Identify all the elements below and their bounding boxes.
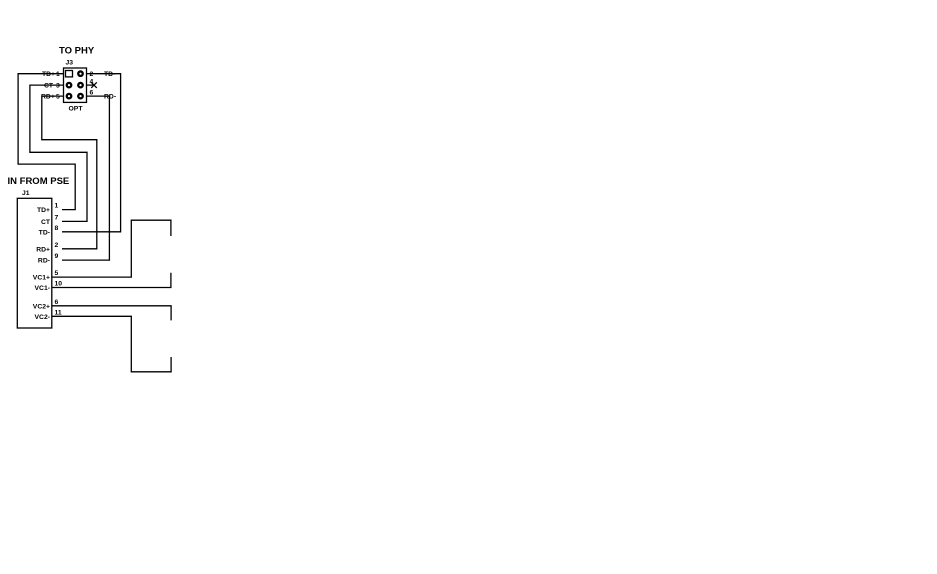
svg-text:IN FROM PSE: IN FROM PSE (8, 176, 70, 187)
svg-text:VC2+: VC2+ (33, 303, 50, 310)
svg-text:CT: CT (44, 83, 54, 90)
svg-text:8: 8 (55, 225, 59, 232)
wire J3 pin4 NC stub (87, 82, 97, 88)
svg-text:10: 10 (55, 281, 63, 288)
svg-text:VC1-: VC1- (35, 285, 51, 292)
svg-text:RD+: RD+ (36, 246, 50, 253)
wire VC2+ to bridge D6 top (52, 306, 171, 321)
svg-text:TD-: TD- (39, 229, 50, 236)
svg-text:2: 2 (55, 242, 59, 249)
svg-text:2: 2 (90, 71, 94, 78)
svg-text:VC2-: VC2- (35, 314, 51, 321)
wire CT J3 to J1 (30, 85, 87, 221)
connector J3 TO PHY (41, 46, 116, 113)
svg-text:TD+: TD+ (42, 71, 55, 78)
wire RD+ J3 to J1 (42, 96, 97, 249)
svg-text:11: 11 (55, 309, 62, 316)
svg-text:VC1+: VC1+ (33, 275, 50, 282)
svg-text:9: 9 (55, 253, 59, 260)
wire VC1+ to bridge D2 top (52, 220, 171, 277)
wire RD- J3 to J1 (62, 96, 109, 260)
wire VC1- to bridge D2 bottom (52, 273, 171, 288)
svg-text:1: 1 (56, 71, 60, 78)
svg-text:TO PHY: TO PHY (59, 46, 95, 57)
svg-text:J3: J3 (66, 60, 74, 67)
svg-text:7: 7 (55, 214, 59, 221)
wire TD- J3 to J1 (62, 74, 121, 232)
svg-text:5: 5 (56, 94, 60, 101)
svg-text:TD-: TD- (104, 71, 115, 78)
svg-text:RD+: RD+ (41, 94, 55, 101)
svg-text:5: 5 (55, 270, 59, 277)
svg-text:6: 6 (90, 89, 94, 96)
wire VC2- to bridge D6 bottom (52, 316, 171, 372)
svg-text:3: 3 (56, 83, 60, 90)
svg-text:RD-: RD- (38, 258, 50, 265)
connector J1 IN FROM PSE (8, 176, 70, 328)
svg-text:CT: CT (41, 219, 51, 226)
svg-text:TD+: TD+ (37, 207, 50, 214)
svg-text:1: 1 (55, 203, 59, 210)
wire TD+ J3 to J1 (18, 74, 75, 210)
svg-text:6: 6 (55, 299, 59, 306)
svg-text:OPT: OPT (69, 106, 84, 113)
svg-text:J1: J1 (22, 190, 30, 197)
